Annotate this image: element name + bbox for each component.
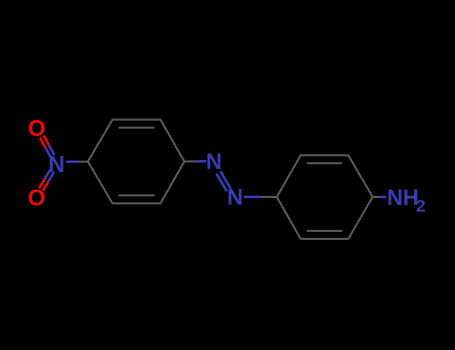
nitro N=O double bond (bottom), blue halves near N, red halves near O [39, 170, 54, 191]
svg-text:O: O [28, 115, 46, 141]
wire: nitro N to ring1 (carbon half) [77, 161, 88, 163]
wire: nitro N to ring1 (blue half) [66, 160, 77, 163]
svg-text:2: 2 [416, 196, 425, 215]
svg-text:N: N [48, 151, 65, 177]
ring2 inner double bond bottom [307, 230, 343, 232]
wire: ring2 to amine N (carbon half) [373, 196, 380, 198]
wire: ring1 to azo N1 (blue half) [196, 160, 207, 163]
wire: azo N2 to ring2 (carbon half) [260, 196, 277, 198]
nitro N=O double bond (top), blue halves near N, red halves near O [40, 136, 54, 157]
wire: ring1 to azo N1 (carbon half) [184, 160, 195, 162]
ring2 inner double bond top [307, 162, 343, 164]
ring1 inner double bond bottom [119, 194, 155, 196]
wire: ring2 to amine N (blue half) [380, 196, 386, 199]
benzene ring 2 (aniline) [277, 155, 373, 239]
svg-text:N: N [227, 185, 243, 210]
ring1 inner double bond top [119, 127, 155, 129]
svg-text:O: O [28, 185, 46, 211]
benzene ring 1 (nitrophenyl) [88, 120, 184, 204]
wire: azo N2 to ring2 (blue half) [244, 196, 260, 199]
azo N=N double bond [216, 171, 230, 191]
svg-text:N: N [206, 149, 222, 174]
svg-text:NH: NH [387, 185, 419, 210]
